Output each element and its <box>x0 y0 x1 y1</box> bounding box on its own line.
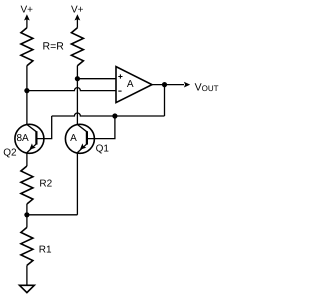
resistor R (left, value R) <box>21 28 33 66</box>
transistor Q2 <box>15 124 44 153</box>
svg-text:V+: V+ <box>20 5 33 16</box>
wire feedback drop from output <box>164 85 166 116</box>
svg-text:Q2: Q2 <box>3 148 17 159</box>
ground <box>20 285 35 292</box>
wire op-amp output <box>152 84 184 86</box>
svg-text:R2: R2 <box>39 179 52 190</box>
node D (emitter/R1/R2 junction) <box>24 212 29 217</box>
transistor Q1 <box>65 124 94 153</box>
resistor R1 <box>21 227 33 265</box>
wire base feedback rail (with hop) <box>52 113 165 116</box>
svg-text:A: A <box>70 133 77 144</box>
wire Q1 base <box>87 116 115 139</box>
resistor R (right, value R) <box>71 28 83 66</box>
svg-text:A: A <box>127 79 134 90</box>
wire R2 to node <box>26 204 28 227</box>
op-amp U1 <box>116 67 152 103</box>
wire Q2 base <box>36 116 51 139</box>
svg-text:VOUT: VOUT <box>195 81 219 93</box>
wire R1 to ground <box>26 265 28 285</box>
wire to op-amp noninverting input <box>77 78 116 80</box>
wire left column (resistor to Q2 collector) <box>26 66 28 125</box>
svg-text:8A: 8A <box>16 133 29 144</box>
wire Q2 emitter to R2 <box>26 153 28 166</box>
svg-text:V+: V+ <box>71 5 84 16</box>
wire to op-amp inverting input (with hop) <box>27 88 116 91</box>
resistor R2 <box>21 166 33 204</box>
node A (left collector junction) <box>24 88 29 93</box>
power V+ arrow (left) <box>24 14 30 28</box>
svg-text:R1: R1 <box>39 244 52 255</box>
svg-text:R=R: R=R <box>43 40 65 52</box>
wire right column (resistor to Q1 collector) <box>76 66 78 125</box>
node B (right collector junction) <box>75 76 80 81</box>
power V+ arrow (right) <box>75 14 81 28</box>
node C (Q1 base tap) <box>112 113 117 118</box>
svg-text:Q1: Q1 <box>96 143 110 154</box>
wire emitter node horizontal <box>27 214 78 216</box>
node output junction <box>162 82 167 87</box>
output arrow <box>184 82 190 88</box>
wire Q1 emitter down <box>76 153 78 215</box>
